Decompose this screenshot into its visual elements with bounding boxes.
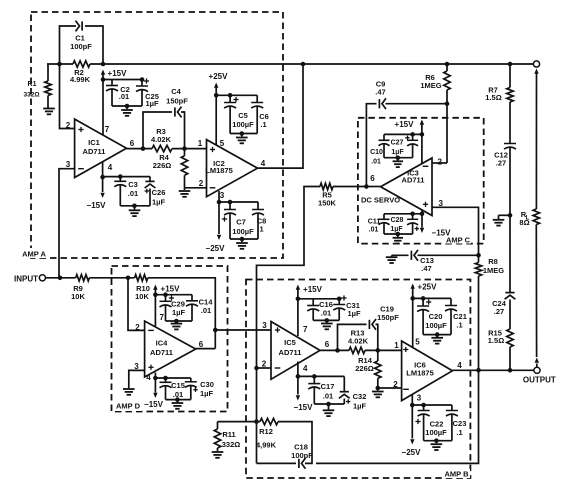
svg-text:4.02K: 4.02K [151, 135, 172, 144]
svg-text:INPUT: INPUT [14, 275, 38, 284]
svg-text:+25V: +25V [418, 283, 438, 292]
svg-text:1µF: 1µF [347, 309, 360, 318]
capacitor C26 polarized [149, 177, 151, 182]
bus output terminal top right [533, 61, 539, 67]
capacitor C28 polarized [410, 212, 415, 217]
svg-text:1MEG: 1MEG [420, 81, 441, 90]
svg-text:−15V: −15V [87, 201, 107, 210]
svg-text:6: 6 [199, 340, 204, 349]
ground tap for zobel networks [508, 213, 513, 218]
svg-text:−25V: −25V [206, 244, 226, 253]
capacitor C6 [256, 95, 258, 102]
svg-text:AMP D: AMP D [116, 402, 141, 411]
svg-text:C26: C26 [152, 188, 166, 197]
svg-text:100pF: 100pF [70, 42, 92, 51]
load resistor RL [533, 209, 539, 225]
svg-text:1MEG: 1MEG [483, 266, 504, 275]
svg-text:C17: C17 [321, 382, 335, 391]
capacitor C4 [174, 107, 176, 116]
wire IC4 pin3 to ground [129, 370, 145, 388]
svg-text:6: 6 [370, 174, 375, 183]
capacitor C31 polarized [337, 297, 342, 302]
wire IC2 pin2 to R4 bottom [185, 187, 207, 189]
feedback wire output to C18 row [316, 370, 479, 463]
svg-text:4.02K: 4.02K [348, 337, 369, 346]
ground under R14 [372, 391, 384, 393]
wire IC4 pin2 to R10 left node [128, 278, 145, 331]
wire IC2 output pin 4 to feedback bus [258, 64, 304, 168]
wire IC5 output to R13 [320, 349, 349, 351]
resistor R11 [217, 422, 219, 429]
svg-text:.47: .47 [421, 264, 431, 273]
svg-text:C15: C15 [171, 381, 185, 390]
svg-text:+15V: +15V [161, 285, 181, 294]
svg-text:7: 7 [105, 125, 110, 134]
svg-text:100µF: 100µF [425, 428, 447, 437]
svg-text:10K: 10K [71, 292, 85, 301]
-25V supply arrow for IC6 [411, 405, 413, 439]
ground under R11 [212, 451, 224, 453]
-15V supply for IC5 [297, 362, 299, 395]
svg-text:LM1875: LM1875 [406, 369, 434, 378]
wire input to R9 [46, 277, 76, 279]
svg-text:.47: .47 [375, 88, 385, 97]
svg-text:C10: C10 [370, 149, 383, 156]
capacitor C18 [298, 459, 300, 468]
wire branch to C22/C23 [412, 404, 452, 406]
resistor R2 [73, 61, 90, 67]
INPUT terminal [39, 275, 45, 281]
svg-text:1.5Ω: 1.5Ω [485, 93, 501, 102]
svg-text:1.5Ω: 1.5Ω [488, 336, 504, 345]
wire branch to C17/C32 [298, 375, 344, 377]
ground under C7/C8 [236, 242, 248, 244]
-15V supply for IC1 with node [102, 162, 104, 192]
svg-text:1: 1 [198, 139, 203, 148]
capacitor C30 polarized [190, 378, 192, 382]
capacitor C9 [378, 99, 380, 108]
wire IC4 output node to IC5 pin3 [215, 329, 271, 331]
wire feedback bus y=64 from R1 to output terminal [47, 63, 73, 65]
svg-text:+25V: +25V [209, 72, 229, 81]
amplifier block AMP C dashed border [358, 118, 484, 244]
svg-text:C30: C30 [200, 380, 214, 389]
svg-text:R8: R8 [488, 257, 498, 266]
svg-text:.01: .01 [128, 189, 138, 198]
svg-text:100µF: 100µF [232, 227, 254, 236]
svg-text:.01: .01 [201, 306, 211, 315]
svg-text:.01: .01 [119, 92, 129, 101]
resistor R14 [377, 350, 379, 361]
svg-text:10K: 10K [135, 292, 149, 301]
OUTPUT terminal [534, 367, 540, 373]
amplifier block AMP A dashed border [31, 12, 283, 258]
resistor R3 [152, 145, 172, 151]
svg-text:4: 4 [261, 159, 266, 168]
-15V supply for IC4 [154, 373, 156, 393]
svg-text:2: 2 [199, 179, 204, 188]
capacitor C32 polarized [343, 376, 345, 391]
svg-text:C20: C20 [429, 312, 443, 321]
svg-text:C27: C27 [391, 140, 404, 147]
svg-text:5: 5 [415, 338, 420, 347]
svg-text:.01: .01 [323, 392, 333, 401]
capacitor C20 polarized [421, 296, 426, 301]
svg-text:100µF: 100µF [232, 120, 254, 129]
svg-text:1: 1 [394, 341, 399, 350]
svg-text:226Ω: 226Ω [355, 364, 374, 373]
svg-text:IC4: IC4 [156, 339, 169, 348]
ground under R1 [43, 108, 55, 110]
wire IC6 pin3 down [411, 395, 413, 406]
wire bypass branch to C3/C26 [103, 176, 150, 178]
svg-text:−15V: −15V [144, 400, 164, 409]
svg-text:.1: .1 [260, 120, 266, 129]
ground under C15/C30 [172, 402, 184, 404]
svg-text:R12: R12 [259, 427, 273, 436]
svg-text:.1: .1 [257, 225, 263, 234]
resistor R13 [349, 347, 365, 353]
wire IC1 pin3 to input node [59, 169, 75, 278]
wire bypass branch to C2/C25 [103, 79, 142, 81]
capacitor C21 [450, 298, 452, 305]
svg-text:C3: C3 [128, 180, 138, 189]
op-amp IC3 AD711 (DC servo, mirrored) [381, 158, 433, 216]
resistor R1 [47, 64, 49, 81]
capacitor C15 [163, 376, 168, 381]
wire C11/C28 bottom [384, 233, 413, 235]
svg-text:.1: .1 [456, 321, 462, 330]
resistor R15 [507, 329, 513, 347]
svg-text:C5: C5 [238, 111, 248, 120]
svg-text:3: 3 [417, 394, 422, 403]
capacitor C14 [191, 295, 193, 301]
capacitor C4 loop wire [143, 112, 172, 149]
wire IC6 output row [452, 369, 534, 371]
svg-text:150pF: 150pF [166, 97, 188, 106]
capacitor C5 polarized [228, 93, 233, 98]
svg-text:100pF: 100pF [291, 451, 313, 460]
svg-text:3: 3 [262, 321, 267, 330]
load connection wire with arrows [534, 69, 538, 74]
wire C2/C25 bottom [112, 105, 142, 107]
svg-text:7: 7 [303, 325, 308, 334]
svg-text:8Ω: 8Ω [519, 218, 529, 227]
wire IC3 pin3 to R8 line [432, 207, 479, 255]
capacitor C19 [368, 320, 370, 329]
svg-text:C32: C32 [353, 392, 367, 401]
svg-text:.27: .27 [494, 307, 504, 316]
wire C3/C26 bottom [120, 205, 150, 207]
svg-text:−25V: −25V [402, 448, 422, 457]
-25V supply arrow for IC2 [218, 202, 220, 234]
servo output wire down to lower amp [257, 187, 321, 464]
+15V supply arrow for IC5 [296, 285, 300, 290]
node R1/R2/C1 junction [57, 62, 62, 67]
wire branch to C16/C31 [298, 298, 339, 300]
resistor R9 [76, 275, 90, 281]
svg-text:R11: R11 [222, 430, 235, 439]
ground under C10/C27 [393, 160, 403, 162]
resistor R7 [509, 64, 511, 88]
op-amp IC4 AD711 [145, 321, 196, 377]
wire C7/C8 bottom [230, 238, 258, 240]
ground under C20/C21 [431, 337, 443, 339]
svg-text:.01: .01 [369, 227, 379, 234]
svg-text:+15V: +15V [303, 285, 323, 294]
svg-text:.01: .01 [321, 309, 331, 318]
wire IC5 pin2 to servo line [257, 367, 272, 369]
wire branch to C10/C27 [384, 133, 422, 135]
svg-text:2: 2 [438, 158, 443, 167]
svg-text:LM1875: LM1875 [205, 166, 233, 175]
ground under C11/C28 [393, 237, 403, 239]
svg-text:4: 4 [146, 373, 151, 382]
svg-text:226Ω: 226Ω [153, 161, 172, 170]
capacitor C22 polarized [421, 403, 426, 408]
wire branch to C7/C8 [219, 201, 258, 203]
svg-text:332Ω: 332Ω [23, 92, 39, 99]
svg-text:3: 3 [220, 191, 225, 200]
wire C15/C30 bottom [166, 399, 191, 401]
ground under C29/C14 [171, 323, 183, 325]
wire R11 branch [218, 421, 257, 423]
svg-text:150pF: 150pF [377, 313, 399, 322]
capacitor C19 loop wire [338, 324, 367, 350]
ground under C3/C26 [129, 209, 141, 211]
wire IC2 pin3 down [218, 191, 220, 202]
wire IC3 pin2 [432, 162, 447, 164]
svg-text:C28: C28 [391, 217, 404, 224]
node +15V branch [101, 77, 106, 82]
wire C5/C6 bottom [230, 133, 257, 135]
wire IC6 pin2 to R14 bottom [378, 387, 402, 389]
svg-text:IC1: IC1 [88, 138, 100, 147]
svg-text:4: 4 [457, 361, 462, 370]
wire C17/C32 bottom [314, 403, 344, 405]
svg-text:−15V: −15V [432, 229, 452, 238]
svg-text:C4: C4 [171, 87, 181, 96]
svg-text:.01: .01 [371, 159, 381, 166]
ground under R4 [179, 190, 191, 192]
wire branch to C11/C28 [384, 213, 422, 215]
svg-text:100µF: 100µF [425, 321, 447, 330]
wire C22/C23 bottom [424, 440, 452, 442]
wire IC1 output to R3 [127, 148, 153, 150]
svg-text:C11: C11 [368, 219, 381, 226]
capacitor C9 loop wire [366, 104, 376, 187]
ground under C2/C25 [121, 109, 133, 111]
svg-text:IC5: IC5 [284, 338, 296, 347]
svg-text:1µF: 1µF [172, 308, 185, 317]
wire IC4 output [196, 348, 216, 350]
svg-text:AD711: AD711 [150, 348, 173, 357]
op-amp IC5 AD711 [271, 322, 320, 380]
ground under C5/C6 [236, 137, 248, 139]
wire branch to C20/C21 [413, 297, 451, 299]
svg-text:4: 4 [303, 364, 308, 373]
ground at IC4 pin3 [123, 388, 135, 390]
svg-text:7: 7 [160, 313, 165, 322]
svg-text:6: 6 [130, 139, 135, 148]
svg-text:3: 3 [66, 160, 71, 169]
ground under C16/C31 [321, 323, 333, 325]
capacitor C1 [81, 21, 83, 30]
wire C13 row [392, 254, 409, 256]
svg-text:6: 6 [325, 340, 330, 349]
capacitor C12 [504, 143, 516, 145]
svg-text:5: 5 [220, 139, 225, 148]
svg-text:AMP A: AMP A [22, 250, 46, 259]
amplifier block AMP D dashed border [112, 266, 228, 412]
capacitor C8 [257, 202, 259, 210]
capacitor C13 ground [391, 255, 393, 256]
svg-text:1µF: 1µF [145, 99, 158, 108]
svg-text:+15V: +15V [395, 120, 415, 129]
wire IC1 pin2 to feedback node [60, 64, 75, 129]
svg-text:AD711: AD711 [279, 348, 302, 357]
capacitor C13 [410, 251, 412, 260]
+15V supply arrow for IC1 [101, 70, 105, 75]
power op-amp IC6 LM1875 [402, 341, 453, 401]
capacitor C25 polarized [140, 77, 145, 82]
capacitor C10 [383, 134, 385, 140]
resistor R4 [184, 149, 186, 156]
capacitor C29 polarized [163, 292, 168, 297]
wire C16/C31 bottom [313, 319, 339, 321]
wire R9 to R10 [89, 277, 134, 279]
wire branch to C5/C6 [216, 94, 257, 96]
capacitor C16 [312, 299, 314, 306]
capacitor C11 [383, 214, 385, 220]
resistor R6 [446, 64, 448, 71]
resistor R5 [320, 183, 333, 189]
svg-text:1µF: 1µF [200, 389, 213, 398]
svg-text:1µF: 1µF [152, 198, 165, 207]
resistor R10 [135, 275, 148, 281]
wire branch to C15/C30 [155, 377, 190, 379]
wire C10/C27 bottom [384, 157, 413, 159]
amplifier block AMP B dashed border [246, 280, 470, 479]
svg-text:AMP B: AMP B [444, 470, 469, 479]
+15V supply arrow for IC4 [153, 285, 157, 290]
capacitor C23 [451, 405, 453, 411]
capacitor C24 [505, 292, 514, 294]
svg-text:.27: .27 [496, 159, 506, 168]
op-amp IC1 AD711 [75, 119, 127, 177]
svg-text:−15V: −15V [294, 403, 314, 412]
capacitor C7 polarized [228, 200, 233, 205]
svg-text:C7: C7 [236, 218, 246, 227]
svg-text:C23: C23 [453, 419, 467, 428]
node R2/C1 right junction [101, 62, 106, 67]
svg-text:1µF: 1µF [391, 149, 404, 156]
svg-text:4,99K: 4,99K [256, 441, 277, 450]
wire C20/C21 bottom [423, 334, 451, 336]
svg-text:2: 2 [393, 380, 398, 389]
svg-text:1µF: 1µF [353, 402, 366, 411]
load wire lower segment [535, 225, 537, 358]
capacitor C3 [118, 174, 123, 179]
power op-amp IC2 LM1875 [207, 140, 258, 197]
capacitor C17 [312, 374, 317, 379]
svg-text:332Ω: 332Ω [222, 440, 241, 449]
ground under C22/C23 [431, 443, 443, 445]
svg-text:4.99K: 4.99K [70, 75, 91, 84]
svg-text:R1: R1 [28, 81, 37, 88]
capacitor C2 [111, 80, 113, 86]
svg-text:OUTPUT: OUTPUT [523, 376, 556, 385]
svg-text:4: 4 [108, 163, 113, 172]
resistor R12 feedback row [254, 419, 259, 424]
wire C29/C14 bottom [166, 320, 193, 322]
svg-text:DC SERVO: DC SERVO [361, 196, 400, 205]
-15V supply for IC3 [421, 210, 423, 228]
svg-text:150K: 150K [318, 199, 337, 208]
svg-text:AD711: AD711 [83, 147, 106, 156]
wire branch to C29/C14 [155, 294, 192, 296]
capacitor C1 feedback loop wire [60, 26, 77, 64]
ground under C17/C32 [323, 409, 335, 411]
svg-text:AD711: AD711 [402, 176, 425, 185]
resistor R8 [478, 255, 480, 262]
svg-text:.1: .1 [456, 428, 462, 437]
capacitor C27 polarized [410, 132, 415, 137]
resistor R12 [260, 418, 278, 424]
svg-text:+15V: +15V [108, 69, 128, 78]
wire R10 right to IC4 output node [148, 278, 216, 349]
resistor R5 servo wire [333, 186, 366, 188]
